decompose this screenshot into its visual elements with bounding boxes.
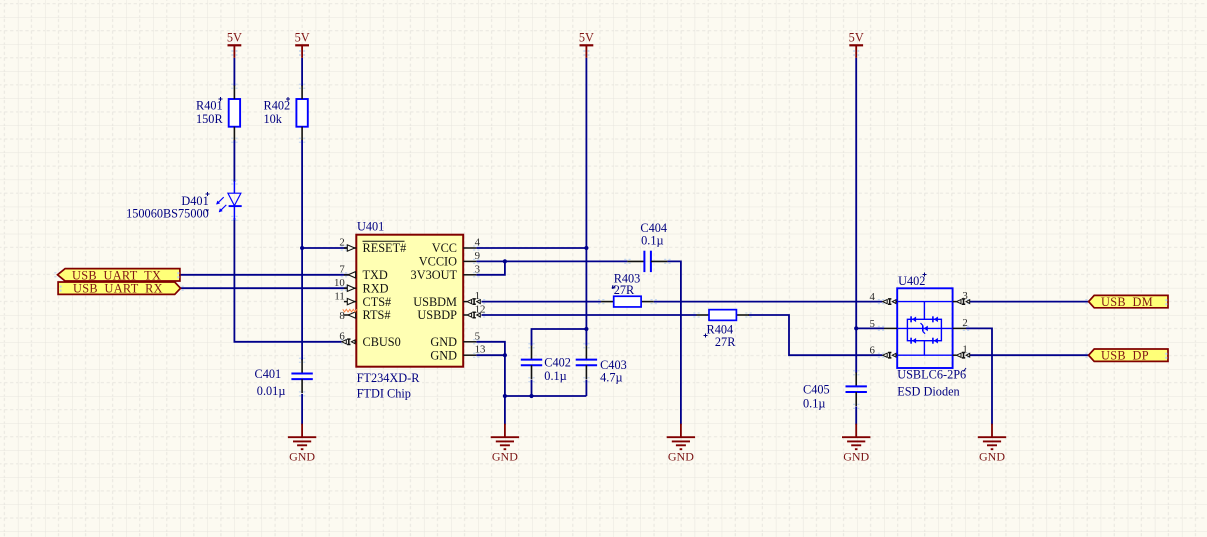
svg-text:4: 4	[475, 237, 481, 249]
U401 pin name CTS#	[363, 295, 392, 309]
resistor R401	[196, 86, 240, 141]
svg-text:27R: 27R	[715, 335, 736, 349]
U402 steering diode bottom-right	[933, 338, 938, 344]
U401 pin 3 stub	[463, 274, 476, 276]
svg-text:1: 1	[475, 290, 480, 302]
U402 pin 1 stub	[953, 353, 970, 358]
node VCC 5V junction	[584, 246, 588, 250]
resistor R402	[264, 86, 308, 141]
svg-text:150R: 150R	[196, 112, 223, 126]
U402 pin 4 stub	[883, 299, 898, 304]
svg-text:U401: U401	[357, 220, 384, 234]
U401 pin 13 stub	[463, 354, 476, 356]
svg-text:VCC: VCC	[432, 241, 457, 255]
U401 pin number 12	[475, 304, 486, 316]
wire pin 13 GND join	[476, 354, 505, 356]
ground symbol GND4	[842, 424, 870, 464]
svg-text:CTS#: CTS#	[363, 295, 392, 309]
svg-text:5V: 5V	[227, 31, 242, 45]
U402 zener diode center	[921, 323, 928, 334]
wire 5V to R402 (column B)	[301, 58, 303, 86]
power symbol P2 5V	[295, 31, 310, 58]
svg-text:10: 10	[334, 277, 345, 289]
U401 pin name GND right	[430, 335, 457, 349]
wire C402 link to 5V column	[532, 329, 587, 346]
svg-text:USBDM: USBDM	[413, 295, 457, 309]
port USB_UART_TX	[58, 268, 180, 282]
svg-text:13: 13	[475, 344, 486, 356]
U401 pin name RESET#	[363, 241, 407, 255]
svg-text:GND: GND	[668, 450, 694, 464]
svg-text:GND: GND	[289, 450, 315, 464]
U402 steering diode top-left	[911, 316, 916, 322]
ground symbol GND3	[667, 424, 695, 464]
U401 pin number 2	[339, 237, 344, 249]
svg-text:USB_DM: USB_DM	[1101, 295, 1153, 309]
U402 pin number 2	[962, 317, 967, 329]
node pin13 gnd junction	[503, 353, 507, 357]
LED D401 150060BS75000	[126, 181, 242, 221]
wire C402 bottom to gnd bus	[531, 380, 533, 396]
svg-text:ESD Dioden: ESD Dioden	[897, 384, 960, 398]
svg-text:5V: 5V	[579, 31, 594, 45]
wire R403 to U402 pin 4	[654, 301, 883, 303]
U401 pin number 8	[339, 310, 344, 322]
port USB_DP	[1089, 349, 1168, 363]
svg-text:R402: R402	[264, 99, 291, 113]
svg-text:C405: C405	[803, 382, 830, 396]
U402 pin 2 stub	[953, 327, 966, 329]
U402 steering diode bottom-left	[911, 338, 916, 344]
U401 pin number 6	[339, 331, 345, 343]
U402 steering diode top-right	[933, 316, 938, 322]
wire 5V column I down to U402 pin 5 node	[855, 58, 857, 329]
svg-text:USB_UART_RX: USB_UART_RX	[73, 282, 163, 296]
wire 5V column E down to C403	[585, 58, 587, 346]
capacitor C402 0.1u	[521, 346, 571, 383]
svg-text:5: 5	[475, 330, 480, 342]
U401 pin number 9	[475, 250, 480, 262]
compile dots inside ports	[60, 272, 1168, 359]
U402 pin 3 stub	[953, 299, 970, 304]
node C402 bottom junction	[529, 394, 533, 398]
svg-text:U402: U402	[898, 274, 925, 288]
port USB_UART_RX	[58, 282, 180, 296]
svg-text:USB_DP: USB_DP	[1101, 349, 1149, 363]
U401 pin 12 stub	[463, 312, 480, 317]
U401 pin name VCC right	[432, 241, 457, 255]
U401 pin name CBUS0	[363, 335, 401, 349]
U401 pin name RTS#	[363, 308, 391, 322]
op-amp U401 FT234XD-R chip body	[356, 220, 463, 367]
svg-text:FT234XD-R: FT234XD-R	[357, 371, 421, 385]
svg-text:1: 1	[962, 344, 967, 356]
ground symbol GND2	[491, 424, 519, 464]
U401 pin 9 stub	[463, 260, 476, 262]
svg-text:4: 4	[869, 291, 875, 303]
wire pin 12 USBDP to R404	[482, 314, 697, 316]
svg-text:11: 11	[334, 290, 344, 302]
wire USB_UART_TX port to pin 7	[180, 274, 349, 276]
power symbol P4 5V	[849, 31, 864, 58]
U401 pin 1 stub	[463, 299, 480, 304]
capacitor C404 0.1u (series horizontal)	[627, 221, 667, 272]
U401 pin name VCCIO right	[419, 255, 457, 269]
wire U402 pin 1 to USB_DP port	[970, 354, 1090, 356]
U402 pin 6 stub	[883, 353, 898, 358]
svg-text:2: 2	[339, 237, 344, 249]
U402 pin number 5	[869, 318, 874, 330]
wire R404 jog down to U402 pin 6	[749, 315, 883, 355]
U401 pin name USBDM right	[413, 295, 457, 309]
U401 pin number 13	[475, 344, 486, 356]
wire C403 bottom to gnd bus	[585, 380, 587, 396]
wire node to U402 pin 5	[856, 327, 884, 329]
svg-text:7: 7	[339, 264, 345, 276]
U402 subtitle USBLC6-2P6	[897, 368, 966, 382]
U401 pin 5 stub	[463, 341, 476, 343]
svg-text:RXD: RXD	[363, 281, 389, 295]
power symbol P1 5V	[227, 31, 242, 58]
svg-text:0.1µ: 0.1µ	[544, 369, 566, 383]
svg-text:5V: 5V	[849, 31, 864, 45]
svg-text:3V3OUT: 3V3OUT	[411, 268, 458, 282]
svg-text:CBUS0: CBUS0	[363, 335, 401, 349]
wire R402 down through RESET node to C401	[301, 140, 303, 360]
svg-text:VCCIO: VCCIO	[419, 255, 457, 269]
U401 pin name USBDP right	[417, 308, 457, 322]
compile marks at component pin connections	[54, 84, 1091, 408]
U401 subtitle FTDI Chip	[357, 387, 411, 401]
U402 pin number 1	[962, 344, 967, 356]
svg-text:GND: GND	[843, 450, 869, 464]
U401 pin number 1	[475, 290, 480, 302]
diode array U402 USBLC6-2P6 body	[897, 273, 952, 369]
U402 internal connection lines	[897, 302, 952, 356]
wire pin 3 3V3OUT jog up to VCCIO net	[476, 261, 505, 274]
svg-text:GND: GND	[492, 450, 518, 464]
U402 pin number 3	[962, 290, 967, 302]
U401 pin number 11	[334, 290, 344, 302]
U401 pin name GND right	[430, 348, 457, 362]
svg-text:R401: R401	[196, 99, 223, 113]
svg-text:0.01µ: 0.01µ	[257, 384, 286, 398]
power symbol P3 5V	[579, 31, 594, 58]
U401 pin number 3	[475, 263, 480, 275]
svg-text:150060BS75000: 150060BS75000	[126, 207, 209, 221]
U401 subtitle FT234XD-R	[357, 371, 421, 385]
wire C401 to GND	[301, 394, 303, 425]
svg-text:6: 6	[339, 331, 345, 343]
wire pin 9 VCCIO to C404	[476, 260, 627, 262]
U401 pin name 3V3OUT right	[411, 268, 458, 282]
svg-text:6: 6	[869, 345, 875, 357]
U402 subtitle ESD Dioden	[897, 384, 960, 398]
port USB_DM	[1089, 295, 1168, 309]
wire U402 pin 2 to GND column J	[966, 328, 992, 424]
svg-text:USB_UART_TX: USB_UART_TX	[72, 268, 161, 282]
svg-text:5V: 5V	[295, 31, 310, 45]
U402 pin number 4	[869, 291, 875, 303]
node C402 link junction	[584, 327, 588, 331]
U401 pin number 10	[334, 277, 345, 289]
svg-text:10k: 10k	[264, 112, 283, 126]
U402 pin 5 stub	[884, 327, 897, 329]
svg-text:GND: GND	[430, 335, 457, 349]
svg-text:TXD: TXD	[363, 268, 388, 282]
svg-text:5: 5	[869, 318, 874, 330]
wire pin 5 GND down column C	[476, 342, 505, 396]
wire gnd bus under C402 C403	[505, 395, 587, 397]
U401 pin 8 stub	[344, 312, 356, 318]
wire column C to GND symbol	[504, 396, 506, 425]
wire U402 pin 3 to USB_DM port	[970, 301, 1090, 303]
U401 pin number 7	[339, 264, 345, 276]
U401 pin number 5	[475, 330, 480, 342]
node gnd bus left junction	[503, 394, 507, 398]
compile warning squiggle at pin 8	[343, 309, 357, 312]
wire 5V node down to C405	[855, 328, 857, 372]
wire pin 4 VCC to 5V column E	[476, 247, 586, 249]
svg-text:RESET#: RESET#	[363, 241, 407, 255]
svg-text:12: 12	[475, 304, 486, 316]
svg-text:RTS#: RTS#	[363, 308, 391, 322]
wire R401 to LED D401	[233, 140, 235, 182]
svg-text:0.1µ: 0.1µ	[641, 233, 663, 247]
svg-text:4.7µ: 4.7µ	[600, 370, 622, 384]
U401 pin name RXD	[363, 281, 389, 295]
U402 pin number 6	[869, 345, 875, 357]
resistor R403 27R	[601, 271, 654, 307]
wire RESET# net to pin 2	[302, 247, 347, 249]
wire C405 to GND	[855, 406, 857, 424]
capacitor C405 0.1u	[803, 372, 867, 410]
svg-text:0.1µ: 0.1µ	[803, 396, 825, 410]
resistor R404 27R	[696, 310, 749, 349]
U401 pin number 4	[475, 237, 481, 249]
capacitor C403 4.7u	[576, 346, 627, 385]
ground symbol GND5	[978, 424, 1006, 464]
svg-text:FTDI Chip: FTDI Chip	[357, 387, 411, 401]
ground symbol GND1	[288, 424, 316, 464]
svg-text:2: 2	[962, 317, 967, 329]
svg-text:USBLC6-2P6: USBLC6-2P6	[897, 368, 966, 382]
U401 pin 4 stub	[463, 247, 476, 249]
U401 pin 2 stub	[344, 245, 356, 251]
wire USB_UART_RX port to pin 10	[181, 287, 348, 289]
U401 pin 6 stub	[342, 339, 357, 344]
node VCCIO 3V3OUT junction	[503, 259, 507, 263]
svg-text:C402: C402	[544, 355, 571, 369]
svg-text:9: 9	[475, 250, 480, 262]
node 5V pin5 junction	[854, 326, 858, 330]
svg-text:3: 3	[962, 290, 967, 302]
svg-text:3: 3	[475, 263, 480, 275]
svg-text:USBDP: USBDP	[417, 308, 457, 322]
U401 pin name TXD	[363, 268, 388, 282]
svg-text:GND: GND	[430, 348, 457, 362]
capacitor C401 0.01u	[255, 360, 313, 399]
U401 pin 11 stub	[344, 298, 356, 304]
wire pin 1 USBDM to R403	[482, 301, 602, 303]
wire LED D401 down to CBUS0 pin 6	[234, 218, 341, 342]
U401 pin 7 stub	[344, 272, 356, 278]
svg-text:27R: 27R	[614, 283, 635, 297]
svg-text:GND: GND	[979, 450, 1005, 464]
U401 pin 10 stub	[344, 285, 356, 291]
node RESET junction	[300, 246, 304, 250]
svg-text:C401: C401	[255, 367, 282, 381]
wire C404 to GND column G	[667, 261, 681, 424]
wire 5V to R401 (column A)	[233, 58, 235, 86]
